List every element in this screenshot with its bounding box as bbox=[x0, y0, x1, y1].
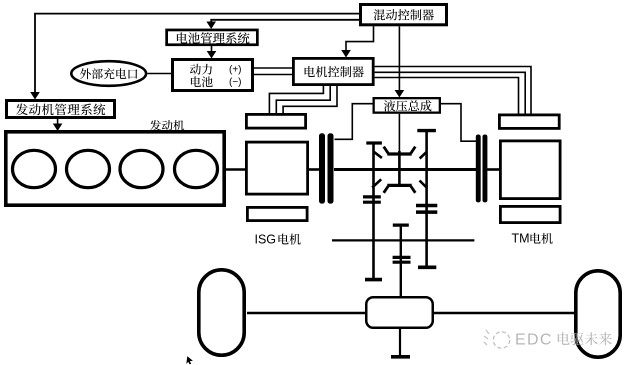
svg-text:(−): (−) bbox=[229, 77, 242, 88]
svg-text:EDC: EDC bbox=[515, 332, 553, 349]
svg-text:(+): (+) bbox=[229, 65, 242, 76]
svg-text:TM: TM bbox=[512, 232, 530, 246]
svg-text:ISG: ISG bbox=[255, 233, 277, 247]
